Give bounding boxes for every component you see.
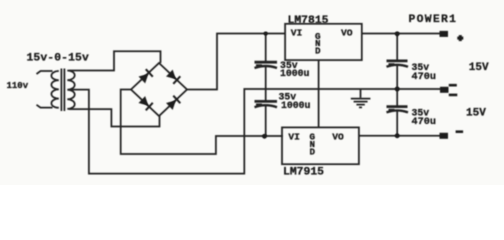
junction dot C4 bottom: [395, 133, 400, 138]
transformer T1 secondary winding: [67, 71, 74, 109]
capacitor C3/C4 column: [396, 34, 398, 136]
capacitor C4 plates: [387, 105, 408, 108]
junction dot C2 bottom: [262, 134, 267, 139]
diode D4 bottom-right: [166, 95, 181, 110]
wire secondary bottom lead to bridge AC bottom: [69, 109, 160, 126]
wire secondary top lead to bridge AC top: [69, 51, 161, 70]
equals mark at common terminal: [449, 84, 457, 87]
junction dot C1 top: [264, 32, 268, 36]
svg-text:LM7915: LM7915: [283, 167, 324, 179]
capacitor C1 leads: [265, 34, 267, 137]
svg-text:15V: 15V: [469, 62, 489, 74]
wire LM7815 VO to +15V terminal: [362, 33, 441, 35]
svg-text:1000u: 1000u: [280, 68, 310, 79]
terminal +15V: [440, 31, 449, 37]
svg-text:LM7815: LM7815: [288, 15, 329, 27]
transformer T1 core: [61, 69, 64, 112]
diode D2 top-right: [166, 69, 181, 84]
diode D3 bottom-left: [138, 96, 153, 111]
transformer T1 primary winding: [51, 71, 58, 108]
regulator U1 LM7815 box: [285, 24, 362, 60]
svg-text:VI: VI: [291, 28, 303, 39]
svg-text:470u: 470u: [412, 117, 436, 128]
regulator U2 LM7915 box: [282, 127, 359, 164]
transformer T1 primary lead bottom: [37, 105, 53, 108]
svg-text:D: D: [315, 45, 321, 56]
svg-text:VO: VO: [341, 28, 353, 39]
svg-text:470u: 470u: [412, 72, 436, 83]
wire bridge negative output to LM7915 VI: [121, 90, 283, 155]
svg-text:15V: 15V: [466, 108, 486, 120]
svg-text:15v-0-15v: 15v-0-15v: [27, 53, 89, 65]
capacitor C3 plates: [387, 60, 408, 63]
wire LM7915 VO to -15V terminal: [359, 135, 441, 137]
svg-text:110v: 110v: [7, 81, 29, 91]
wire U1 GND pin to common rail and U2 GND pin: [318, 60, 320, 127]
capacitor C1 plates: [255, 61, 278, 64]
minus mark at -15V terminal: [456, 130, 464, 133]
junction dot C3/C4 common: [395, 87, 400, 92]
terminal -15V: [440, 133, 449, 139]
terminal common: [440, 87, 449, 93]
svg-text:1000u: 1000u: [281, 100, 311, 111]
svg-text:POWER1: POWER1: [409, 14, 458, 26]
diode D1 top-left: [138, 69, 153, 84]
plus mark at +15V terminal: [457, 37, 463, 40]
transformer T1 primary lead top: [37, 71, 53, 74]
wire bridge positive output to LM7815 VI: [187, 34, 285, 90]
ground symbol: [360, 89, 362, 98]
svg-text:VI: VI: [288, 131, 300, 142]
capacitor C2 plates: [255, 100, 278, 103]
bridge rectifier diamond: [131, 63, 187, 116]
junction dot C3 top: [395, 31, 400, 36]
wire secondary center tap to common rail: [69, 89, 441, 174]
svg-text:D: D: [310, 146, 316, 157]
svg-text:VO: VO: [332, 131, 344, 142]
